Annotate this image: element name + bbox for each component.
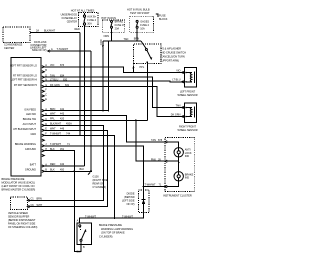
junction dot in cluster [178, 162, 180, 164]
EHCU pin E stub [42, 98, 47, 102]
right front wheel sensor [185, 103, 197, 123]
wire BRN 441 to fuse wires [44, 110, 108, 112]
switch contacts and arm [79, 225, 81, 227]
EHCU pin stub group3 [42, 154, 45, 156]
EHCU pin J T-WH/WT 71 brake warning [42, 143, 71, 147]
EHCU pin B WHT 443 led ind [42, 113, 65, 117]
svg-text:RED: RED [75, 28, 80, 31]
fuse block dashed box (GAGES fuse side) [130, 16, 154, 32]
svg-text:GROUND: GROUND [25, 148, 36, 151]
EHCU brake pressure modulator valve box [11, 58, 41, 177]
svg-text:GROUND: GROUND [25, 169, 36, 172]
svg-text:LED IND: LED IND [26, 113, 36, 116]
EHCU pin B stub [42, 69, 47, 73]
wire T-TAN/WT to ground G100 [50, 50, 91, 52]
wire TAN 834 to right front wheel sensor [44, 77, 184, 107]
VSS buffer pin C6 WHT [27, 206, 29, 208]
svg-text:OF I/P): OF I/P) [126, 203, 134, 206]
wire DK GRN 831 to right front wheel sensor [44, 87, 184, 117]
svg-text:BRAKE MASTER CYLINDER): BRAKE MASTER CYLINDER) [2, 189, 36, 192]
wire between lamps [178, 157, 180, 172]
svg-text:SUPPORT ARM): SUPPORT ARM) [160, 60, 179, 63]
lamp BRAKE IND [174, 172, 183, 181]
svg-text:T-WH/WT: T-WH/WT [85, 215, 96, 218]
svg-text:T/S & H/FLASHER: T/S & H/FLASHER [160, 48, 181, 51]
svg-text:BATT: BATT [30, 163, 37, 166]
wire diode to pressure switch [80, 213, 144, 223]
switch contact [145, 49, 147, 51]
svg-text:10A: 10A [140, 28, 145, 31]
wire PNK 39 branch down to cluster [136, 120, 165, 161]
svg-text:INSTRUMENT CLUSTER: INSTRUMENT CLUSTER [163, 195, 192, 198]
svg-text:GND: GND [30, 133, 36, 136]
svg-text:AND CRUISE SWITCH: AND CRUISE SWITCH [160, 52, 186, 55]
svg-text:WHEEL SENSOR: WHEEL SENSOR [177, 129, 197, 132]
wire LT BLU 830 to left front wheel sensor [44, 80, 184, 83]
svg-text:BRN: BRN [37, 198, 42, 201]
brake pressure warning switch box [77, 223, 92, 245]
svg-text:CENTER: CENTER [4, 47, 14, 50]
wire T-WH/WT 71 to diode and cluster [44, 146, 143, 190]
svg-text:WARNING LAMP WARNING: WARNING LAMP WARNING [101, 228, 133, 231]
wire BLK 450 to G100 [44, 170, 91, 172]
wire T-WH/WT 71 to cluster [144, 186, 166, 188]
connector C200 dot on ORN wire [102, 45, 104, 47]
vehicle speed sensor buffer dashed box [11, 197, 28, 210]
wire PPL 420 to cruise switch [44, 119, 147, 121]
svg-text:BRN: BRN [134, 37, 139, 40]
svg-text:TAN: TAN [124, 38, 129, 41]
switch arm [147, 51, 152, 60]
wire brake lamp to 71 pin [167, 181, 179, 187]
svg-text:BRAKE PRESSURE: BRAKE PRESSURE [99, 224, 122, 227]
svg-text:TAN: TAN [151, 139, 156, 142]
EHCU pin E WHT 446 v/h buffer input [42, 128, 65, 132]
svg-text:AUX INPUT: AUX INPUT [23, 123, 37, 126]
convenience center dashed box [3, 27, 30, 43]
switch pin dot left [133, 67, 135, 69]
diode symbol [143, 190, 145, 213]
wire WHT 443 to instrument cluster anti-lock lamp [44, 116, 165, 142]
fuse GAGES 10A [136, 20, 149, 32]
svg-text:878: 878 [158, 139, 163, 142]
svg-text:20A: 20A [115, 28, 120, 31]
EHCU pin D BLK/WHT 450A aux input [42, 123, 72, 127]
svg-text:BLOCK: BLOCK [159, 18, 168, 21]
lamp ANTI LOCK IND [174, 148, 183, 157]
switch pin dot right / wire PPL down [146, 61, 148, 63]
svg-text:T-WH/WT: T-WH/WT [122, 215, 133, 218]
wire WHT 446 to VSS buffer C6 [29, 130, 108, 206]
wire pnk to junction [167, 160, 179, 162]
EHCU pin D TAN 834 [42, 74, 65, 78]
svg-text:SIDE OF I/P): SIDE OF I/P) [32, 49, 47, 52]
svg-text:ORN: ORN [104, 35, 110, 38]
svg-text:OF STEERING COLUMN): OF STEERING COLUMN) [8, 226, 37, 229]
wire T-WH/WT 744 down to pressure switch wire [44, 135, 114, 218]
svg-text:PPL: PPL [140, 66, 145, 69]
svg-text:(CANCELS/ON TURN: (CANCELS/ON TURN [160, 56, 185, 59]
wire BLK/WHT from convenience center [30, 32, 80, 34]
wire BLK/WHT 450A to VSS buffer C1 [29, 125, 103, 200]
svg-text:WHEEL SENSOR: WHEEL SENSOR [177, 94, 197, 97]
svg-text:C: C [45, 93, 47, 96]
EHCU pin A BRN 441 ign feed [42, 108, 65, 112]
svg-text:LEFT FRT SENSOR LO: LEFT FRT SENSOR LO [10, 64, 37, 67]
EHCU pin B BLK 450 ground [42, 169, 65, 173]
fuse AUX B+ 30A (underhood) [83, 13, 96, 27]
fuse BRAKE 20A [111, 20, 126, 32]
label FUSE BLOCK [156, 14, 158, 17]
EHCU pin F T-WH/WT 744 [42, 133, 71, 137]
svg-text:PNK: PNK [151, 158, 156, 161]
svg-text:C200: C200 [100, 39, 103, 46]
EHCU pin A RED 442 batt [42, 163, 65, 167]
switch pin B [80, 241, 82, 248]
EHCU pin F stub [42, 89, 47, 93]
svg-text:VIO: VIO [176, 69, 180, 72]
svg-text:LEFT FRT SENSOR HI: LEFT FRT SENSOR HI [11, 79, 37, 82]
svg-text:BLK: BLK [80, 168, 85, 171]
wire BLK 451 to G100 [44, 151, 74, 172]
EHCU pin G DK GRN 831 [42, 84, 70, 88]
svg-text:CYLINDER): CYLINDER) [99, 235, 113, 238]
EHCU pin C PPL 420 brake sw [42, 118, 65, 122]
svg-text:RT FRT SENSOR HI: RT FRT SENSOR HI [14, 84, 37, 87]
fuse block dashed box (BRAKE fuse side) [102, 20, 125, 32]
junction dot at diode top [143, 186, 145, 188]
svg-text:FUSE: FUSE [159, 15, 166, 18]
diode dashed box [139, 190, 150, 213]
cluster pin arrow 71 [165, 185, 167, 187]
junction dot on T-WH/WT 744 row [79, 134, 81, 136]
svg-text:30A: 30A [87, 22, 92, 25]
EHCU pin A VIO 873 (left front sensor hi) [42, 64, 65, 68]
cluster pin arrow anti-lock [165, 141, 167, 143]
EHCU pin N LT BLU 830 [42, 78, 68, 82]
wire VIO 873 to left front wheel sensor [44, 67, 184, 73]
wire ORN down to IGN FEED row [102, 41, 104, 112]
instrument cluster dashed box [165, 138, 195, 192]
svg-text:HOT AT ALL TIMES: HOT AT ALL TIMES [71, 9, 95, 13]
T/S flasher and cruise switch dashed box [134, 44, 162, 64]
svg-text:CENTER: CENTER [67, 21, 77, 24]
svg-text:DK GRN: DK GRN [171, 114, 181, 117]
svg-text:BRAKE WARNING: BRAKE WARNING [15, 143, 36, 146]
svg-text:LT BLU: LT BLU [172, 79, 180, 82]
wire inside cluster to anti-lock lamp [167, 142, 179, 148]
VSS buffer pin C1 BRN [27, 199, 29, 201]
svg-text:IND: IND [185, 155, 190, 158]
svg-text:TAN: TAN [176, 104, 181, 107]
svg-text:RT FRT SENSOR LO: RT FRT SENSOR LO [13, 75, 37, 78]
wire RED 442 from underhood fuse [44, 165, 84, 167]
svg-text:HOT IN RUN: HOT IN RUN [101, 17, 116, 20]
wire ground run down to pressure switch [74, 171, 81, 251]
svg-text:IND: IND [185, 177, 190, 180]
svg-text:CYLINDER): CYLINDER) [93, 186, 107, 189]
svg-text:V/H BUFFER INPUT: V/H BUFFER INPUT [13, 128, 37, 131]
wire RED 442: underhood fuse down to EHCU BATT pin [84, 27, 86, 166]
DLC pin arrow [48, 50, 50, 52]
wire BRN feed diagonal into switch [141, 41, 146, 48]
wire ORN/TAN/BRN bus below fuse block [111, 32, 113, 41]
wire TAN down to IGN FEED row [108, 41, 110, 112]
underhood fuse/relay center dashed box [78, 13, 98, 27]
ground G100 [88, 170, 92, 174]
svg-text:TEST OR START: TEST OR START [130, 12, 150, 15]
svg-text:T-WH/WT: T-WH/WT [145, 183, 156, 186]
svg-text:BRAKE SW: BRAKE SW [23, 118, 37, 121]
svg-text:(ON TOP OF BRAKE: (ON TOP OF BRAKE [101, 232, 125, 235]
EHCU pin G stub group2 [42, 139, 45, 141]
EHCU pin C stub [42, 93, 47, 97]
svg-text:IGN FEED: IGN FEED [24, 108, 36, 111]
left front wheel sensor [185, 68, 197, 88]
svg-text:WHT: WHT [37, 204, 43, 207]
cluster pin arrow pnk [165, 160, 167, 162]
EHCU pin H BLK 451 ground [42, 148, 65, 152]
